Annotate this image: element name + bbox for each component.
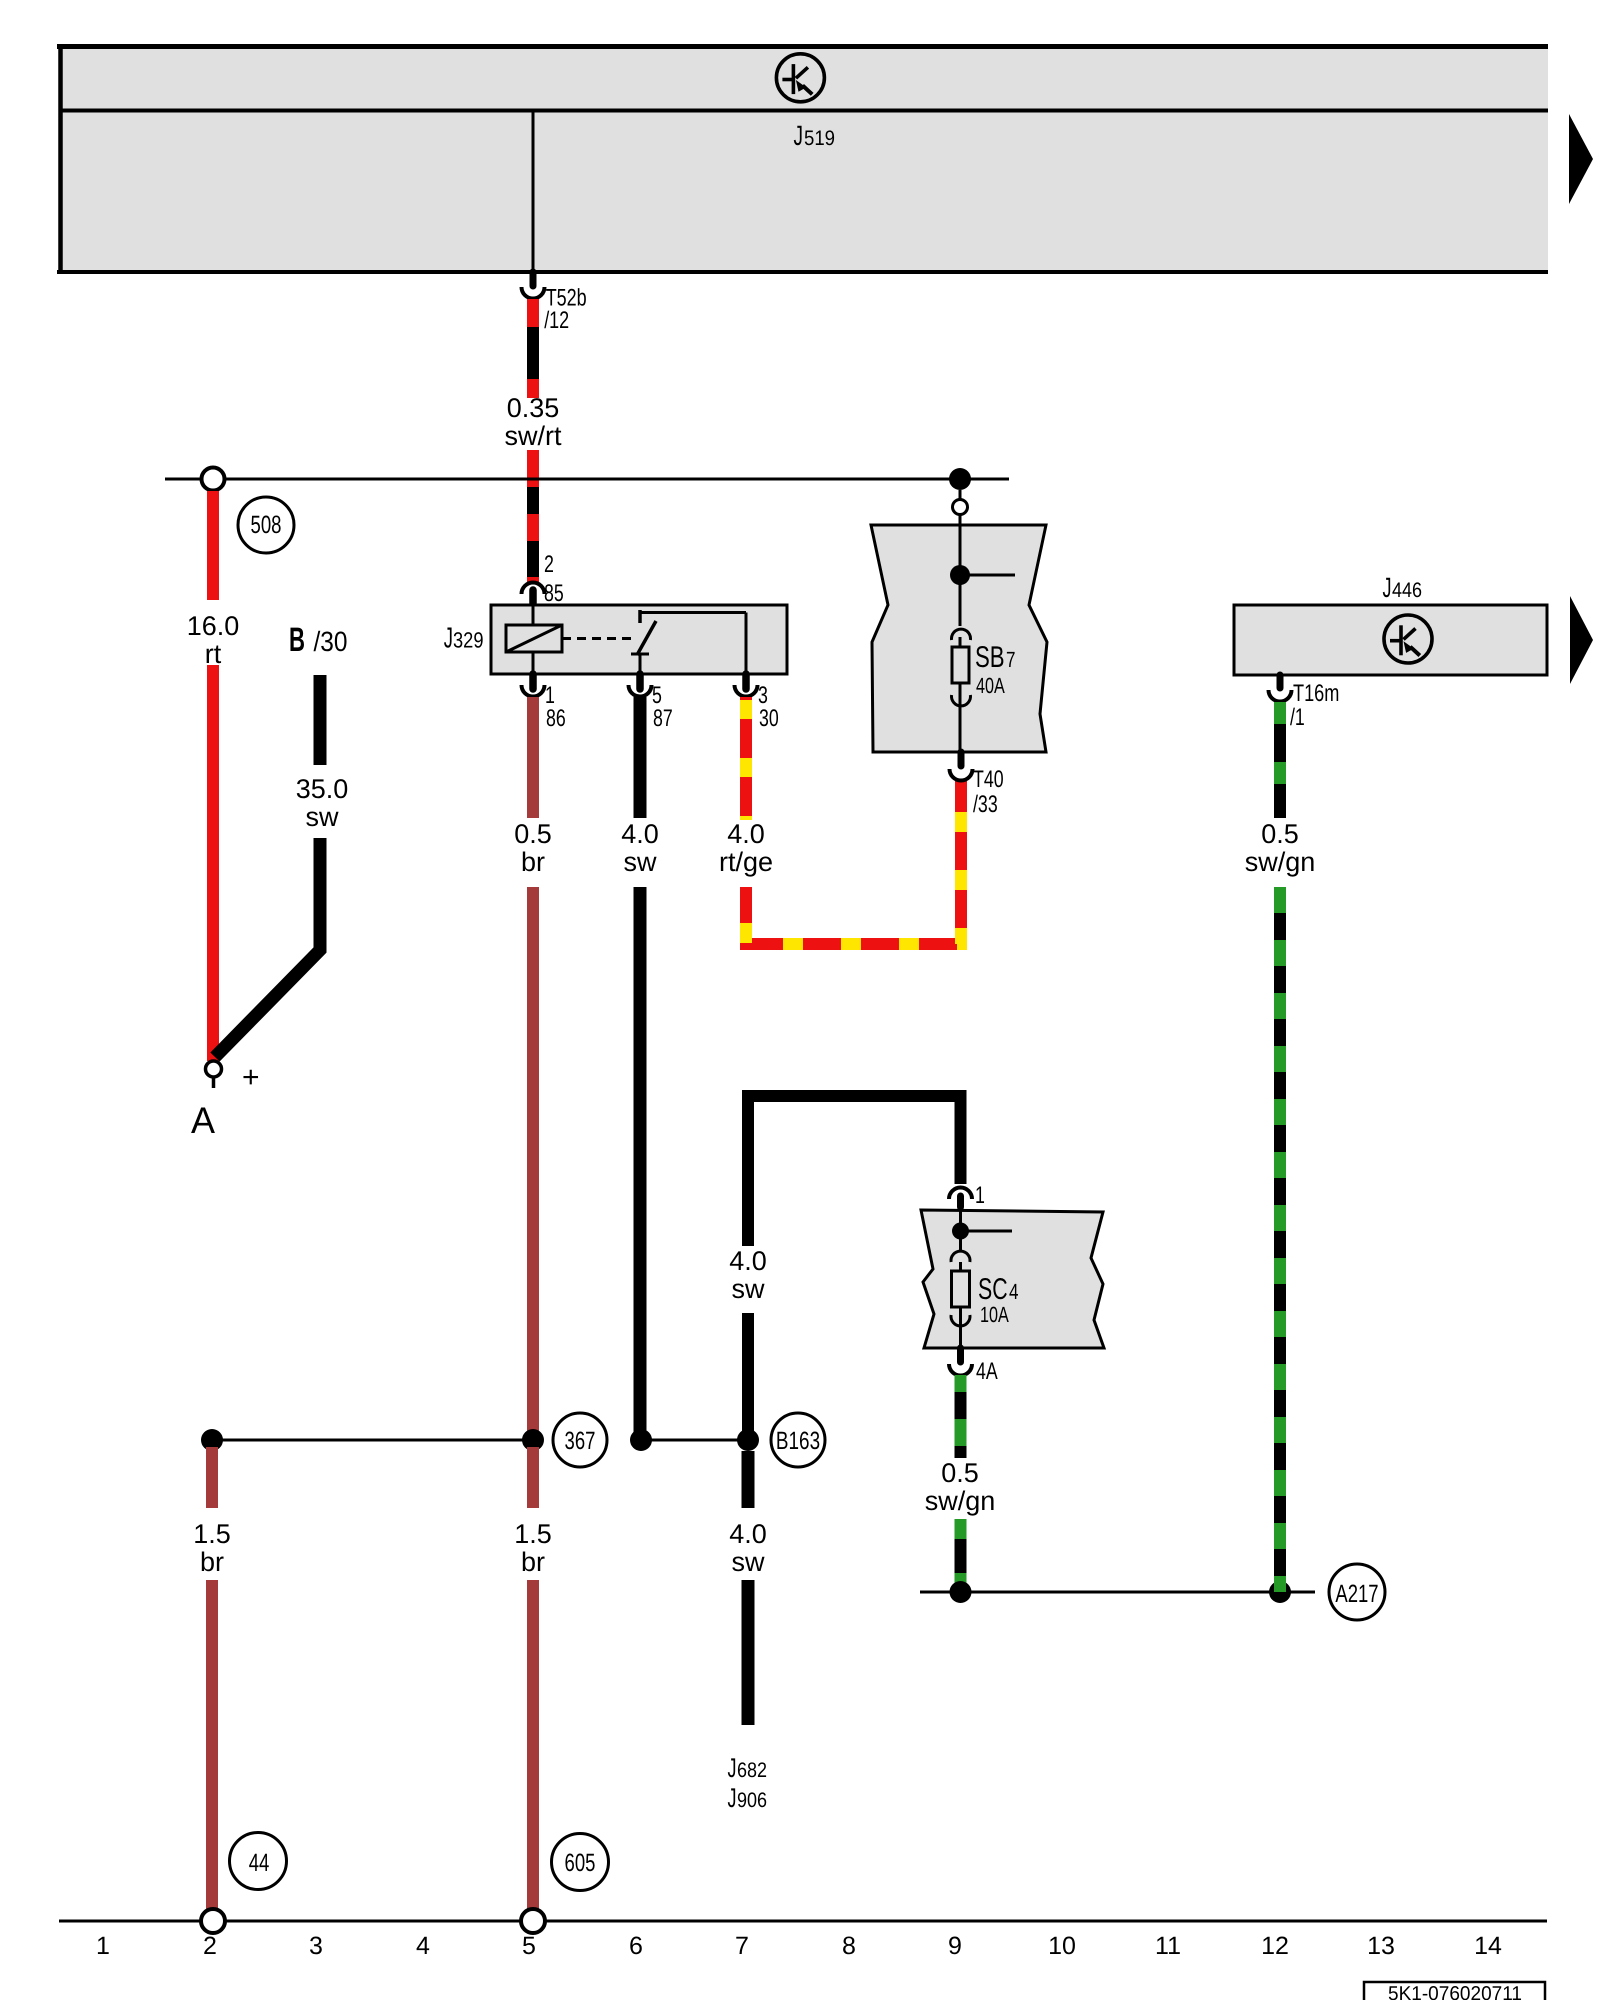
svg-text:10: 10 (1048, 1932, 1076, 1960)
wire 0.5 br from pin 86 (527, 697, 539, 818)
svg-text:J: J (728, 1753, 737, 1783)
wire link at node 367 (212, 1439, 533, 1442)
node label 605 (552, 1834, 609, 1891)
svg-text:+: + (242, 1061, 260, 1094)
wire 1.5 br left (206, 1447, 218, 1508)
svg-text:2: 2 (544, 551, 554, 578)
svg-text:2: 2 (203, 1932, 217, 1960)
svg-text:rt: rt (205, 639, 222, 669)
node A217 wire link (920, 1591, 1315, 1594)
node B163 label circle (771, 1413, 825, 1467)
svg-text:br: br (521, 1547, 545, 1577)
svg-text:12: 12 (1261, 1932, 1289, 1960)
svg-text:87: 87 (653, 705, 673, 732)
relay switch (631, 610, 746, 674)
connector 4A (949, 1348, 998, 1385)
svg-text:906: 906 (737, 1789, 767, 1812)
pin 3/30 connector (735, 674, 779, 732)
svg-text:rt/ge: rt/ge (719, 847, 773, 877)
svg-text:35.0: 35.0 (296, 774, 349, 804)
pin 1/86 connector (522, 674, 566, 732)
svg-text:6: 6 (629, 1932, 643, 1960)
svg-text:1.5: 1.5 (193, 1519, 231, 1549)
svg-text:J: J (794, 120, 804, 151)
pin 2/85 connector (522, 551, 564, 607)
junction dot (wire from 4A) (950, 1581, 972, 1603)
control unit J446 box (1234, 572, 1547, 675)
fuse SB7 (952, 629, 971, 640)
connector T16m/1 (1269, 675, 1340, 731)
part number box (1364, 1982, 1545, 2000)
wire 0.35 sw/rt (black/red) (527, 299, 539, 583)
svg-text:J: J (728, 1783, 737, 1813)
svg-text:A217: A217 (1335, 1580, 1378, 1608)
junction dot above SB7 (949, 468, 971, 490)
wire from rail into SB7 (959, 490, 962, 500)
svg-text:9: 9 (948, 1932, 962, 1960)
connector T40/33 (950, 752, 1004, 818)
svg-text:682: 682 (737, 1759, 767, 1782)
wire link at node B163 (641, 1439, 748, 1442)
svg-text:4.0: 4.0 (729, 1246, 767, 1276)
svg-text:13: 13 (1367, 1932, 1395, 1960)
svg-text:367: 367 (565, 1427, 596, 1455)
svg-text:0.5: 0.5 (941, 1458, 979, 1488)
svg-text:4.0: 4.0 (727, 819, 765, 849)
node line (plus rail) (165, 478, 1009, 481)
wire 4.0 sw to SC4 (up and over) (748, 1096, 961, 1246)
svg-text:4.0: 4.0 (621, 819, 659, 849)
battery A positive terminal (206, 1061, 222, 1077)
svg-text:3: 3 (309, 1932, 323, 1960)
svg-text:0.5: 0.5 (514, 819, 552, 849)
pin 5/87 connector (629, 674, 673, 732)
svg-text:0.35: 0.35 (507, 393, 560, 423)
svg-text:1.5: 1.5 (514, 1519, 552, 1549)
ground terminal 2 (201, 1909, 225, 1933)
junction dot (wire from pin 87) (630, 1429, 652, 1451)
control unit J519 box (57, 44, 1548, 274)
svg-text:4.0: 4.0 (729, 1519, 767, 1549)
svg-text:/33: /33 (973, 791, 998, 818)
svg-text:1: 1 (96, 1932, 110, 1960)
svg-text:0.5: 0.5 (1261, 819, 1299, 849)
wire 0.5 sw/gn below SC4 (black/green) (955, 1375, 967, 1592)
svg-text:5: 5 (522, 1932, 536, 1960)
svg-text:B163: B163 (776, 1427, 820, 1455)
svg-text:85: 85 (544, 580, 564, 607)
continuation arrow right of J519 (1569, 114, 1593, 204)
node 367 label circle (553, 1413, 607, 1467)
fuse SC4 internals (959, 1210, 962, 1232)
svg-text:16.0: 16.0 (187, 611, 240, 641)
connector T52b/12 (522, 272, 587, 334)
svg-text:sw/gn: sw/gn (925, 1486, 996, 1516)
junction dot (wire from T16m) (1269, 1581, 1291, 1603)
svg-text:7: 7 (735, 1932, 749, 1960)
svg-text:519: 519 (804, 127, 835, 150)
svg-text:1: 1 (975, 1182, 985, 1209)
svg-text:11: 11 (1155, 1932, 1181, 1960)
continuation arrow right of J446 (1570, 596, 1593, 684)
svg-text:40A: 40A (976, 673, 1005, 698)
svg-text:4: 4 (416, 1932, 430, 1960)
svg-text:sw/rt: sw/rt (505, 421, 562, 451)
svg-text:/1: /1 (1290, 704, 1305, 731)
svg-text:sw: sw (306, 802, 340, 832)
relay coil (506, 605, 634, 674)
svg-text:B: B (289, 621, 305, 659)
relay J329 box (491, 605, 787, 674)
svg-text:T16m: T16m (1293, 680, 1339, 707)
svg-text:sw/gn: sw/gn (1245, 847, 1316, 877)
node label 44 (230, 1833, 287, 1890)
wire 16.0 rt (red) (207, 491, 219, 600)
fuse box SB7 (torn box) (871, 490, 1047, 752)
junction dot left (wire 1.5 br) (201, 1429, 223, 1451)
ground rail (bottom line) (59, 1920, 1547, 1923)
svg-text:br: br (521, 847, 545, 877)
svg-text:605: 605 (565, 1849, 596, 1877)
svg-text:sw: sw (732, 1547, 766, 1577)
svg-text:446: 446 (1392, 579, 1422, 602)
svg-text:10A: 10A (980, 1302, 1009, 1327)
svg-text:8: 8 (842, 1932, 856, 1960)
svg-text:30: 30 (759, 705, 779, 732)
node label 508 (238, 497, 294, 553)
wire inside J519 to T52b (532, 110, 535, 272)
terminal circle on rail (202, 468, 225, 491)
ground terminal 5 (521, 1909, 545, 1933)
svg-text:508: 508 (251, 511, 282, 539)
svg-text:/30: /30 (314, 626, 348, 657)
svg-text:86: 86 (546, 705, 566, 732)
svg-text:T40: T40 (973, 766, 1004, 793)
wire 4.0 rt/ge from pin 3 (red/yellow) (746, 697, 961, 944)
svg-text:A: A (191, 1100, 215, 1141)
fuse box SC4 (torn box) (921, 1182, 1104, 1348)
junction dot node B163 (737, 1429, 759, 1451)
svg-text:/12: /12 (544, 307, 569, 334)
junction dot node 367 (522, 1429, 544, 1451)
wire 4.0 sw from pin 87 (634, 697, 647, 818)
svg-text:44: 44 (249, 1849, 270, 1877)
wire 35.0 sw (black) (314, 675, 327, 765)
svg-text:14: 14 (1474, 1932, 1502, 1960)
wire 4.0 sw lower (to J682/J906) (742, 1451, 755, 1508)
node A217 label circle (1329, 1564, 1385, 1620)
svg-text:sw: sw (732, 1274, 766, 1304)
svg-text:4: 4 (1009, 1279, 1019, 1304)
svg-text:4A: 4A (976, 1358, 998, 1385)
svg-text:SB: SB (975, 641, 1005, 674)
wire 1.5 br center (527, 1447, 539, 1508)
svg-text:5K1-076020711: 5K1-076020711 (1388, 1983, 1522, 2000)
J519 internal connection symbol (circle with arrow) (776, 54, 824, 102)
wire 0.5 sw/gn from T16m (black/green) (1274, 702, 1286, 1592)
J446 internal connection symbol (1384, 615, 1432, 663)
track numbers 1-14 (96, 1932, 1502, 1960)
svg-text:J: J (444, 623, 453, 655)
svg-text:329: 329 (453, 628, 484, 653)
svg-text:sw: sw (624, 847, 658, 877)
pin 1 connector (949, 1188, 972, 1200)
svg-text:7: 7 (1006, 647, 1016, 672)
svg-text:br: br (200, 1547, 224, 1577)
svg-text:J: J (1383, 572, 1392, 603)
